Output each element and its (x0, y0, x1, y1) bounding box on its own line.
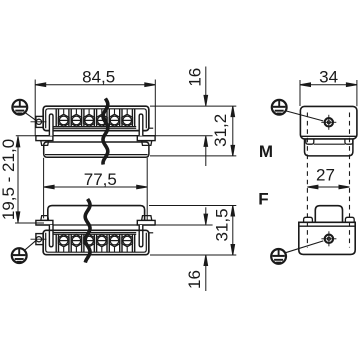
male right nose block (142, 141, 152, 146)
male insert inner contour (46, 109, 147, 129)
F view center screw (321, 231, 336, 246)
male terminal block bottom lines (53, 127, 136, 129)
earth symbol M view (272, 100, 287, 115)
dimension 84,5 line (35, 84, 155, 86)
female right nose block (142, 216, 152, 221)
dimension 77,5 extension lines (44, 158, 148, 220)
dimension 16 female line and arrows (204, 207, 208, 291)
male break squiggle (103, 99, 108, 165)
dimension 77,5 arrows (44, 185, 148, 189)
dimension 27 line (307, 186, 349, 188)
dimension 19,5-21,0 arrows (16, 136, 20, 222)
svg-text:16: 16 (185, 270, 204, 289)
dimension 31,5 line and arrows (231, 206, 235, 256)
F view collar bump (315, 206, 342, 223)
M view left lug (306, 139, 314, 144)
female terminal dividers (56, 234, 135, 252)
leader M view earth (286, 111, 323, 121)
female left nose block (41, 216, 49, 221)
dimension 84,5 extension lines (35, 80, 155, 136)
svg-text:M: M (259, 142, 273, 161)
svg-text:27: 27 (316, 166, 335, 185)
female flange line (36, 224, 155, 226)
extension line female bottom (150, 254, 236, 256)
female PE terminal protrusion (31, 234, 47, 245)
female insert main body (43, 230, 149, 254)
male terminal dividers (56, 109, 135, 127)
dimension 77,5 line (44, 186, 148, 188)
extension line top of female (149, 205, 236, 207)
earth symbol F view (271, 249, 286, 264)
svg-text:77,5: 77,5 (84, 170, 117, 189)
dimension 27 arrows (307, 185, 349, 189)
M view lower body (305, 139, 353, 156)
svg-text:F: F (258, 190, 268, 209)
female break squiggle (85, 199, 90, 263)
svg-text:34: 34 (319, 67, 338, 86)
female body right step line (149, 232, 153, 234)
female left fixing foot (36, 220, 53, 225)
dimension 34 arrows (300, 83, 357, 87)
earth symbol male front (12, 100, 27, 115)
leader female front earth (24, 240, 36, 250)
dimension 19,5-21,0 line (17, 136, 19, 222)
female insert inner contour (46, 233, 147, 253)
M view collar line (314, 143, 345, 145)
svg-text:31,5: 31,5 (213, 208, 232, 241)
dimension 19,5-21,0 extension lines (15, 136, 44, 223)
male body right step line (149, 127, 153, 129)
dashed centerline left (306, 113, 308, 248)
male lower body (44, 142, 149, 157)
male left bracket bar (49, 114, 53, 136)
female insert upper mating body (48, 206, 145, 221)
svg-text:16: 16 (186, 68, 205, 87)
dimension 84,5 arrows (35, 83, 155, 87)
male lower body inner bottom line (45, 154, 148, 156)
M view body (300, 106, 357, 138)
male PE terminal protrusion (31, 116, 47, 127)
svg-text:84,5: 84,5 (82, 68, 115, 87)
dimension 34 line (300, 84, 357, 86)
leader F view earth (285, 241, 323, 253)
female left bracket bar (49, 225, 53, 247)
extension line A top of male (150, 105, 236, 107)
svg-text:31,2: 31,2 (211, 114, 230, 147)
male flange line (36, 135, 155, 137)
male right bracket bar (139, 114, 143, 136)
svg-text:19,5 - 21,0: 19,5 - 21,0 (0, 139, 18, 220)
M view center screw (321, 115, 336, 130)
male left nose block (41, 141, 49, 146)
dimension 16 male line and arrows (204, 67, 208, 167)
F view right lug (345, 217, 354, 222)
extension line female flange (155, 224, 213, 226)
F view main body (299, 222, 355, 254)
earth symbol female front (12, 248, 27, 263)
male terminal screws (58, 109, 132, 127)
dimension 31,2 line and arrows (231, 106, 235, 156)
female right fixing foot (137, 220, 155, 225)
dashed centerline right (349, 113, 351, 248)
male left fixing foot (36, 136, 53, 141)
male right fixing foot (137, 136, 155, 141)
female terminal screws (58, 235, 132, 253)
male insert main body (43, 106, 149, 130)
extension line C male bottom (150, 155, 236, 157)
extension line B male flange (155, 135, 213, 137)
F view inner top line (300, 225, 355, 227)
F view left lug (304, 217, 313, 222)
female terminal block top lines (53, 233, 136, 235)
dimension 34 extension lines (300, 80, 357, 106)
leader male front earth (25, 112, 36, 120)
M view inner bottom line (301, 135, 356, 137)
M view right lug (345, 139, 353, 144)
female right bracket bar (139, 225, 143, 247)
